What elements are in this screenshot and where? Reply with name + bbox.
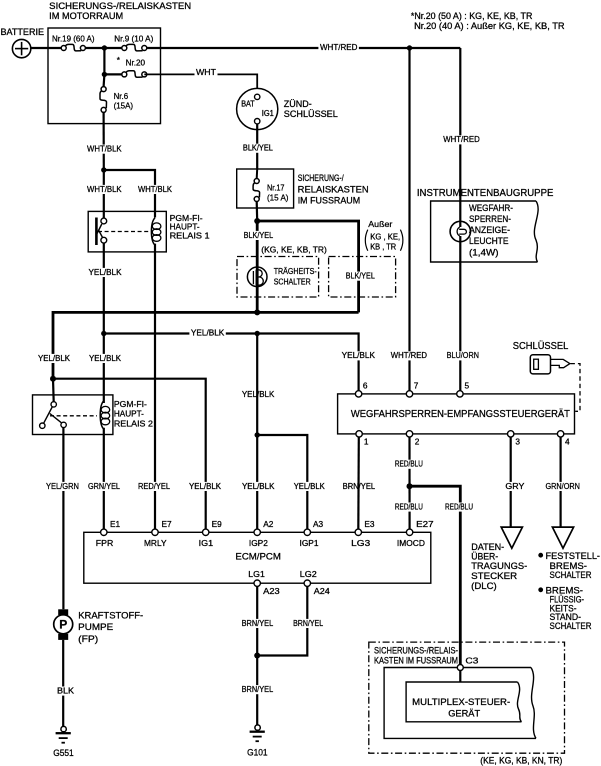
inner board box — [384, 668, 536, 739]
svg-text:G101: G101 — [247, 748, 268, 758]
label YEL/BLK A2 — [240, 482, 276, 491]
svg-text:YEL/BLK: YEL/BLK — [89, 353, 121, 363]
junction BLK/YEL split — [254, 218, 260, 224]
svg-text:YEL/BLK: YEL/BLK — [38, 353, 70, 363]
wire BLK/YEL Nr.17 to junction — [256, 202, 259, 222]
svg-text:Nr.20 (40 A) : Außer KG, KE, K: Nr.20 (40 A) : Außer KG, KE, KB, TR — [414, 21, 565, 31]
svg-text:RELAIS 1: RELAIS 1 — [170, 230, 210, 240]
svg-text:Nr.17: Nr.17 — [267, 182, 285, 192]
svg-text:LG3: LG3 — [351, 538, 370, 548]
junction battery feed — [102, 45, 107, 50]
svg-text:A2: A2 — [263, 519, 274, 529]
svg-text:PUMPE: PUMPE — [78, 622, 113, 633]
terminal E9 IG1 — [199, 519, 222, 548]
wire BLK/YEL left branch down through inertia switch — [256, 221, 259, 312]
svg-text:A23: A23 — [263, 586, 280, 596]
fuse/relay box engine compartment — [48, 28, 161, 124]
wire YEL/BLK rail2 to A2/A3 — [256, 334, 258, 436]
svg-text:WHT: WHT — [196, 67, 216, 77]
label BLK/YEL inside bypass box — [344, 272, 376, 281]
svg-text:BRN/YEL: BRN/YEL — [242, 684, 274, 694]
ground G101 — [255, 725, 260, 730]
wire RED/BLU terminal2 to E27 — [408, 437, 410, 532]
svg-text:IG1: IG1 — [262, 109, 274, 118]
svg-text:BRN/YEL: BRN/YEL — [293, 618, 323, 628]
label GRY — [504, 482, 526, 491]
svg-text:ANZEIGE-: ANZEIGE- — [469, 225, 510, 235]
ignition switch ZUENDSCHLUESSEL — [237, 88, 278, 129]
terminal 7 — [406, 381, 418, 397]
svg-text:E3: E3 — [364, 519, 375, 529]
svg-text:YEL/BLK: YEL/BLK — [242, 389, 275, 399]
fuse Nr.19 (60A) — [52, 33, 95, 51]
svg-text:WEGFAHR-: WEGFAHR- — [469, 203, 513, 213]
svg-text:Außer: Außer — [368, 219, 392, 229]
svg-text:SCHALTER: SCHALTER — [274, 276, 311, 286]
svg-text:(KG, KE, KB, TR): (KG, KE, KB, TR) — [261, 244, 327, 254]
svg-text:YEL/BLK: YEL/BLK — [294, 481, 325, 491]
svg-text:WHT/BLK: WHT/BLK — [87, 184, 122, 194]
wire Nr.9 to right, WHT/RED — [144, 47, 460, 49]
wire YEL/BLK to E9 (IG1) — [53, 379, 206, 533]
label BLK/YEL left branch — [242, 231, 275, 240]
svg-text:Nr.20: Nr.20 — [126, 58, 146, 68]
svg-text:P: P — [59, 618, 67, 632]
svg-text:WHT/RED: WHT/RED — [391, 350, 427, 360]
svg-text:YEL/GRN: YEL/GRN — [46, 481, 79, 491]
immobilizer control unit box — [338, 394, 575, 434]
wire WHT/BLK branch to relay1 coil — [104, 170, 155, 218]
fuse Nr.17 (15A) — [253, 169, 289, 202]
terminal 2 — [406, 431, 419, 447]
svg-text:RELAISKASTEN: RELAISKASTEN — [298, 184, 369, 194]
svg-text:SCHLÜSSEL: SCHLÜSSEL — [284, 109, 338, 119]
immobilizer warning lamp — [450, 221, 470, 241]
terminal A24 LG2 — [300, 569, 330, 596]
key symbol — [530, 355, 570, 374]
wire through inertia switch redrawn — [256, 267, 259, 287]
svg-text:Nr.9 (10 A): Nr.9 (10 A) — [114, 33, 153, 43]
svg-text:INSTRUMENTENBAUGRUPPE: INSTRUMENTENBAUGRUPPE — [417, 188, 554, 199]
relay1 coil — [151, 218, 161, 245]
svg-text:LG1: LG1 — [248, 569, 265, 579]
svg-text:A3: A3 — [313, 519, 324, 529]
label YEL/BLK A3 — [292, 482, 326, 491]
svg-text:IMOCD: IMOCD — [397, 538, 425, 548]
bold rail YEL/BLK (inertia output) — [53, 312, 359, 378]
label YEL/BLK A2/A3 feed — [240, 390, 276, 399]
svg-text:*Nr.20 (50 A) : KG, KE, KB, TR: *Nr.20 (50 A) : KG, KE, KB, TR — [411, 11, 533, 21]
svg-text:BATTERIE: BATTERIE — [1, 27, 45, 37]
svg-text:MULTIPLEX-STEUER-: MULTIPLEX-STEUER- — [412, 697, 510, 708]
svg-text:E27: E27 — [416, 519, 434, 529]
junction inertia rejoin — [254, 309, 260, 315]
multiplex control unit box — [406, 682, 521, 722]
svg-text:ECM/PCM: ECM/PCM — [235, 552, 281, 563]
wire BLK/YEL ignition to fuse Nr.17 — [256, 124, 258, 169]
label BRN/YEL ground — [240, 685, 275, 694]
inertia switch symbol — [247, 267, 267, 287]
label BLK — [56, 687, 76, 696]
wire GRN/YEL relay2 coil to E1 — [103, 428, 105, 533]
wire WHT/RED down to warning lamp and terminal 5 — [459, 48, 461, 395]
svg-text:E1: E1 — [110, 519, 121, 529]
svg-text:SPERREN-: SPERREN- — [469, 214, 511, 224]
label WHT — [195, 68, 218, 77]
svg-text:YEL/BLK: YEL/BLK — [342, 350, 376, 360]
svg-text:WHT/BLK: WHT/BLK — [87, 144, 122, 154]
svg-text:RED/YEL: RED/YEL — [138, 481, 170, 491]
wire WHT/BLK to relay1 — [103, 170, 105, 218]
svg-text:KG , KE,: KG , KE, — [370, 231, 400, 241]
fuse box footwell (Nr.17) — [237, 169, 294, 208]
label BLU/ORN terminal5 — [445, 351, 480, 360]
svg-text:KASTEN IM FUSSRAUM: KASTEN IM FUSSRAUM — [374, 656, 458, 666]
svg-text:IGP1: IGP1 — [300, 538, 319, 548]
wire BRN/YEL LG2 down — [257, 586, 307, 655]
fuse Nr.6 (15A) — [100, 74, 133, 112]
terminal A2 IGP2 — [249, 519, 274, 548]
svg-text:Nr.6: Nr.6 — [114, 91, 129, 101]
terminal 1 — [356, 431, 369, 447]
wire BRN/YEL to G101 — [256, 656, 258, 726]
label YEL/BLK relay1 out — [87, 268, 123, 277]
svg-text:ZÜND-: ZÜND- — [284, 99, 312, 109]
labels BRN/YEL pair — [240, 619, 275, 628]
svg-text:GRN/ORN: GRN/ORN — [545, 481, 580, 491]
wire battery to fuse box (WHT/RED main) — [31, 47, 64, 49]
fuse/relay box engine compartment title — [49, 1, 191, 21]
label RED/YEL — [137, 482, 172, 491]
svg-text:RED/BLU: RED/BLU — [445, 501, 473, 511]
wire YEL/BLK rail2 to relay2 coil — [103, 334, 105, 404]
svg-text:WEGFAHRSPERREN-EMPFANGSSTEUERG: WEGFAHRSPERREN-EMPFANGSSTEUERGERÄT — [351, 408, 571, 420]
svg-text:E7: E7 — [162, 519, 173, 529]
svg-text:G551: G551 — [53, 748, 73, 758]
relay1 dashed link — [98, 231, 149, 233]
wire to A2 — [256, 435, 258, 532]
label KRAFTSTOFF-PUMPE (FP) — [78, 611, 143, 645]
wire to fuse Nr.20 — [104, 73, 124, 75]
relay1 switch — [96, 218, 106, 246]
svg-text:3: 3 — [515, 437, 520, 447]
fuse/relay box footwell (multiplex) dash-dot box — [369, 642, 565, 753]
svg-text:LEUCHTE: LEUCHTE — [469, 236, 509, 246]
wire RED/YEL relay1 coil to E7 — [154, 244, 156, 533]
relay2 coil — [100, 401, 110, 429]
svg-text:BLU/ORN: BLU/ORN — [447, 350, 479, 360]
label Auszer (KG,KE,KB,TR) — [365, 219, 403, 252]
wire GRN/ORN terminal4 — [559, 437, 561, 527]
label BLK/YEL — [241, 144, 274, 153]
svg-text:BLK/YEL: BLK/YEL — [244, 230, 274, 240]
label BRN/YEL E3 — [341, 482, 377, 491]
svg-text:BRN/YEL: BRN/YEL — [242, 618, 274, 628]
wire fuse Nr.19 to Nr.9 — [83, 47, 124, 49]
label SICHERUNGS-/RELAIS-KASTEN IM FUSSRAUM — [374, 645, 458, 665]
svg-text:(1,4W): (1,4W) — [469, 247, 499, 257]
svg-text:HAUPT-: HAUPT- — [114, 408, 144, 418]
svg-text:SCHALTER: SCHALTER — [550, 621, 592, 632]
svg-text:SICHERUNGS-/RELAIS-: SICHERUNGS-/RELAIS- — [374, 645, 458, 655]
label MULTIPLEX-STEUER-GERAET — [412, 697, 510, 720]
junction rail2 mid — [255, 331, 260, 336]
arrow to data link connector — [501, 527, 522, 548]
wire WHT/BLK fuse Nr.6 down — [102, 112, 104, 170]
terminal E1 FPR — [96, 519, 121, 548]
svg-text:WHT/RED: WHT/RED — [320, 42, 358, 52]
fuel pump KRAFTSTOFFPUMPE (FP) — [54, 609, 73, 640]
label SICHERUNG-/RELAISKASTEN IM FUSSRAUM — [298, 173, 369, 205]
label YEL/BLK rail2 — [189, 329, 225, 338]
label PGM-FI-HAUPT-RELAIS 1 — [170, 213, 210, 240]
wire YEL/GRN relay2 to fuel pump — [62, 428, 64, 610]
svg-text:(DLC): (DLC) — [471, 581, 497, 592]
bypass box (Auszer models) — [329, 257, 396, 298]
svg-text:BLK/YEL: BLK/YEL — [243, 143, 273, 153]
terminal 4 — [557, 431, 570, 447]
label DATEN-UEBERTRAGUNGS-STECKER (DLC) — [471, 542, 527, 592]
junction relay1 feed — [101, 167, 106, 172]
label WHT/RED lamp feed — [442, 135, 482, 144]
svg-text:FPR: FPR — [96, 538, 114, 548]
svg-text:(15 A): (15 A) — [267, 192, 289, 202]
label YEL/BLK E9 — [188, 482, 223, 491]
svg-text:IG1: IG1 — [199, 538, 214, 548]
terminal A23 LG1 — [248, 569, 280, 596]
rail2 YEL/BLK relay1 output — [104, 334, 359, 396]
battery — [12, 39, 30, 57]
svg-text:RED/BLU: RED/BLU — [395, 501, 423, 511]
svg-text:PGM-FI-: PGM-FI- — [114, 399, 147, 409]
svg-text:GERÄT: GERÄT — [448, 709, 480, 720]
svg-text:MRLY: MRLY — [144, 538, 167, 548]
terminal C3 — [457, 656, 478, 671]
relay2 dashed link — [50, 415, 97, 417]
wire YEL/BLK terminal6 label — [340, 351, 376, 360]
fuse Nr.9 (10A) — [114, 33, 153, 51]
svg-text:1: 1 — [364, 437, 369, 447]
label YEL/BLK relay2 coil feed — [88, 354, 123, 363]
svg-text:SICHERUNG-/: SICHERUNG-/ — [298, 173, 344, 183]
wire BLK/YEL right branch (Auszer models) — [257, 221, 358, 312]
svg-text:YEL/BLK: YEL/BLK — [191, 328, 225, 338]
svg-text:KRAFTSTOFF-: KRAFTSTOFF- — [78, 611, 143, 622]
wire to A3 — [257, 435, 307, 532]
svg-text:E9: E9 — [212, 519, 223, 529]
wire relay2 switch feed down — [52, 379, 55, 402]
label WHT/BLK — [86, 145, 124, 154]
svg-text:LG2: LG2 — [300, 569, 317, 579]
svg-text:2: 2 — [415, 437, 420, 447]
wire YEL/BLK relay1 switch out — [103, 243, 105, 334]
svg-text:IM MOTORRAUM: IM MOTORRAUM — [49, 11, 123, 21]
wire BRN/YEL terminal1 to E3 — [357, 437, 360, 532]
terminal E3 LG3 — [351, 519, 375, 548]
svg-text:BAT: BAT — [241, 100, 255, 109]
wire BRN/YEL LG1 down — [256, 586, 258, 655]
label FESTSTELLBREMSSCHALTER / BREMSFLUESSIGKEITSSTANDSCHALTER — [538, 551, 600, 632]
svg-text:6: 6 — [363, 381, 368, 391]
bold wire RED/BLU to C3 multiplex — [410, 486, 461, 665]
svg-text:RELAIS 2: RELAIS 2 — [114, 418, 153, 428]
labels WHT/BLK pair — [86, 185, 124, 194]
label WEGFAHR-SPERREN-ANZEIGE-LEUCHTE (1,4W) — [469, 203, 513, 258]
label YEL/GRN — [45, 482, 81, 491]
terminal E7 MRLY — [144, 519, 172, 548]
svg-text:(15A): (15A) — [114, 101, 134, 111]
instrument cluster box — [431, 201, 539, 262]
label TRAEGHEITS-SCHALTER — [274, 266, 317, 287]
terminal E27 IMOCD — [397, 519, 434, 548]
label GRN/YEL — [87, 482, 122, 491]
svg-text:TRÄGHEITS-: TRÄGHEITS- — [274, 266, 317, 276]
terminal A3 IGP1 — [300, 519, 324, 548]
label RED/BLU lower — [393, 503, 424, 512]
dashed link key to control unit — [571, 364, 581, 412]
relay2 switch — [40, 402, 67, 429]
note Nr.20 ratings — [411, 11, 565, 31]
svg-text:SCHALTER: SCHALTER — [550, 570, 592, 581]
junction relay2 feed — [50, 376, 56, 382]
relay PGM-FI-HAUPT-RELAIS 2 — [33, 395, 113, 435]
ECM/PCM box — [84, 532, 431, 583]
wire WHT from Nr.20 to ignition switch — [144, 74, 257, 89]
svg-text:4: 4 — [565, 437, 570, 447]
wire C3 into multiplex unit — [459, 671, 461, 683]
label ZUEND-SCHLUESSEL — [284, 99, 338, 119]
wire GRY terminal3 to DLC — [510, 437, 512, 527]
svg-text:WHT/BLK: WHT/BLK — [138, 184, 172, 194]
svg-text:KB , TR: KB , TR — [370, 242, 396, 252]
junction RED/BLU — [407, 483, 413, 489]
label RED/BLU branch — [444, 503, 475, 512]
svg-text:BLK: BLK — [57, 685, 74, 695]
arrow to brake switches — [552, 527, 573, 548]
svg-text:A24: A24 — [314, 586, 330, 596]
label PGM-FI-HAUPT-RELAIS 2 — [114, 399, 153, 429]
svg-text:BLK/YEL: BLK/YEL — [346, 271, 375, 281]
svg-text:YEL/BLK: YEL/BLK — [189, 481, 221, 491]
label WHT/RED top — [318, 43, 359, 52]
wire junction down to Nr.20 branch — [103, 48, 105, 74]
terminal 3 — [508, 431, 521, 447]
svg-text:GRY: GRY — [505, 481, 524, 491]
svg-text:RED/BLU: RED/BLU — [395, 459, 423, 469]
svg-text:C3: C3 — [465, 656, 478, 666]
svg-text:5: 5 — [465, 381, 470, 391]
svg-text:IGP2: IGP2 — [249, 538, 268, 548]
svg-text:IM FUSSRAUM: IM FUSSRAUM — [298, 195, 361, 205]
ground G551 — [61, 726, 66, 731]
junction rail2 left — [101, 331, 106, 336]
label RED/BLU upper — [393, 460, 424, 469]
fuse Nr.20 — [117, 55, 147, 77]
relay PGM-FI-HAUPT-RELAIS 1 — [88, 211, 166, 252]
svg-text:Nr.19 (60 A): Nr.19 (60 A) — [52, 33, 95, 43]
junction BRN/YEL — [254, 653, 260, 659]
label YEL/BLK relay2 feed — [37, 354, 72, 363]
label GRN/ORN — [544, 482, 582, 491]
svg-text:7: 7 — [414, 381, 419, 391]
svg-text:(FP): (FP) — [78, 634, 98, 645]
terminal 5 — [457, 381, 470, 397]
svg-text:WHT/RED: WHT/RED — [443, 134, 480, 144]
wire BLK pump to ground — [62, 640, 64, 727]
svg-text:YEL/BLK: YEL/BLK — [242, 481, 275, 491]
wire WHT/RED down to terminal 7 — [408, 48, 410, 395]
svg-text:YEL/BLK: YEL/BLK — [89, 267, 122, 277]
label WHT/RED terminal7 — [389, 351, 428, 360]
svg-text:STECKER: STECKER — [471, 571, 517, 582]
svg-text:(KE, KG, KB, KN, TR): (KE, KG, KB, KN, TR) — [480, 755, 562, 765]
svg-text:SICHERUNGS-/RELAISKASTEN: SICHERUNGS-/RELAISKASTEN — [49, 1, 191, 11]
svg-text:GRN/YEL: GRN/YEL — [88, 481, 120, 491]
svg-text:SCHLÜSSEL: SCHLÜSSEL — [513, 340, 569, 352]
inertia switch box TRAEGHEITS-SCHALTER — [237, 257, 319, 298]
terminal 6 — [355, 381, 368, 397]
junction WHT/RED split — [407, 45, 412, 50]
